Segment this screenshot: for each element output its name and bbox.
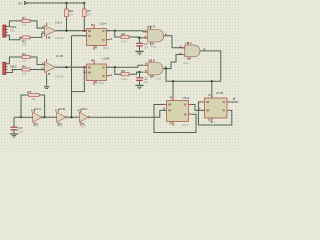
node osc input bbox=[20, 116, 22, 118]
wire R5 right loop bbox=[39, 95, 45, 117]
wire U4:B output staircase to U4:C input B bbox=[163, 55, 185, 69]
resistor R3 bbox=[22, 52, 30, 62]
node top rail / R7 bbox=[83, 2, 85, 4]
chip U2:A bbox=[83, 22, 112, 50]
wire R1 to U1:A plus input bbox=[30, 21, 45, 28]
wire inv3 to U3:A clock bbox=[90, 110, 167, 117]
resistor R8 bbox=[121, 32, 129, 44]
svg-text:U2:B: U2:B bbox=[103, 56, 110, 60]
svg-text:U4:A: U4:A bbox=[148, 24, 156, 28]
wire C3 top lead bbox=[13, 117, 15, 126]
svg-text:R4: R4 bbox=[22, 65, 26, 69]
op-amp U1:A bbox=[42, 21, 64, 40]
svg-text:10k: 10k bbox=[22, 22, 27, 26]
oscillator feedback resistor R5 bbox=[27, 90, 39, 101]
wire U1:A output to U2:A bbox=[56, 30, 87, 32]
svg-text:U5:C: U5:C bbox=[81, 107, 89, 111]
resistor R2 bbox=[22, 36, 30, 47]
wire C3 bottom lead bbox=[13, 130, 15, 133]
wire C1 bottom lead bbox=[139, 47, 141, 51]
wire J1 pin1 to R1 bbox=[7, 21, 22, 27]
wire R2 to U1:A minus input bbox=[30, 33, 45, 37]
connector J1 bbox=[3, 25, 17, 37]
ground U1:B bbox=[44, 86, 50, 89]
ground C2 bbox=[135, 85, 143, 89]
node net x71 join bbox=[70, 116, 72, 118]
resistor R1 bbox=[22, 16, 30, 26]
svg-text:R7: R7 bbox=[87, 9, 91, 13]
resistor R7 bbox=[83, 9, 92, 17]
node S-line U3:B bbox=[211, 80, 213, 82]
wire branch down to R8 bbox=[115, 31, 121, 37]
svg-text:LM339: LM339 bbox=[55, 36, 64, 40]
svg-text:4069: 4069 bbox=[79, 123, 85, 127]
node one-shot 2 branch bbox=[114, 66, 116, 68]
svg-text:10k: 10k bbox=[22, 59, 27, 63]
wire inv2 to inv3 bbox=[67, 116, 79, 118]
wire U2:B Q output bbox=[107, 65, 144, 67]
wire U3:A Q to U3:B clock bbox=[192, 105, 205, 111]
node C1 tap bbox=[138, 37, 140, 39]
wire osc input run bbox=[14, 116, 33, 118]
wire branch down to R9 bbox=[115, 67, 121, 74]
wire U4:C output bbox=[200, 51, 221, 81]
svg-text:U3:B: U3:B bbox=[216, 91, 223, 95]
svg-text:MIC: MIC bbox=[10, 28, 15, 32]
node osc inv1 out bbox=[44, 116, 46, 118]
wire net2 drop x84 bbox=[72, 67, 84, 91]
svg-text:4011: 4011 bbox=[151, 45, 157, 49]
svg-text:4013: 4013 bbox=[182, 123, 188, 127]
resistor R6 bbox=[65, 9, 74, 17]
wire U3:B feedback Qbar to D bbox=[198, 102, 231, 125]
capacitor C3 bbox=[11, 126, 24, 133]
svg-text:10k: 10k bbox=[22, 71, 27, 75]
wire branch down to S-line bbox=[166, 69, 221, 82]
svg-text:R1: R1 bbox=[22, 16, 26, 20]
ground C3 bbox=[10, 133, 18, 137]
svg-text:U4:C: U4:C bbox=[185, 41, 193, 45]
wire R5 left loop bbox=[21, 95, 29, 117]
svg-text:R5: R5 bbox=[27, 90, 31, 94]
svg-text:U1:A: U1:A bbox=[55, 21, 63, 25]
wire R9 to gate U4:B input B bbox=[129, 72, 144, 74]
svg-text:104: 104 bbox=[144, 80, 149, 84]
ground C1 bbox=[135, 51, 143, 55]
svg-text:R3: R3 bbox=[22, 52, 26, 56]
wire inv1 to inv2 bbox=[43, 116, 57, 118]
node S-line U3:A bbox=[172, 80, 174, 82]
wire U3:B set from S-line bbox=[211, 81, 213, 98]
svg-text:-: - bbox=[46, 32, 47, 36]
wire R8 to gate U4:A input B bbox=[129, 36, 148, 39]
inverter U5:C bbox=[78, 107, 90, 128]
background grid bbox=[0, 0, 240, 150]
wire U2:A Q output bbox=[107, 31, 148, 32]
svg-text:4011: 4011 bbox=[183, 61, 189, 65]
node output R6 bbox=[65, 30, 67, 32]
svg-text:U2:A: U2:A bbox=[100, 22, 108, 26]
wire U3:B Q output bbox=[231, 101, 239, 103]
node one-shot 1 branch bbox=[114, 30, 116, 32]
inverter U5:B bbox=[55, 107, 67, 128]
wire R7 bottom lead bbox=[83, 17, 85, 31]
power terminal +5V bbox=[19, 1, 28, 5]
chip U3:B bbox=[198, 91, 235, 124]
svg-text:104: 104 bbox=[144, 45, 149, 49]
chip U2:B bbox=[83, 56, 112, 85]
svg-text:R6: R6 bbox=[69, 9, 73, 13]
svg-text:R8: R8 bbox=[121, 32, 125, 36]
svg-text:-: - bbox=[46, 68, 47, 72]
wire J2 pin4 to R4 bbox=[7, 70, 22, 73]
wire R4 to U1:B minus input bbox=[30, 69, 45, 71]
chip U3:A bbox=[163, 96, 192, 127]
wire U4:A output to U4:C input A bbox=[164, 36, 185, 48]
svg-text:U4:B: U4:B bbox=[148, 59, 155, 63]
wire R7 top lead bbox=[83, 3, 85, 9]
gate U4:C bbox=[180, 41, 206, 65]
node net2 a bbox=[65, 66, 67, 68]
svg-text:10k: 10k bbox=[69, 12, 74, 16]
wire vertical net x71 bbox=[71, 36, 73, 118]
svg-text:U5:A: U5:A bbox=[34, 107, 42, 111]
svg-text:LM339: LM339 bbox=[55, 74, 64, 78]
svg-text:10k: 10k bbox=[87, 12, 92, 16]
inverter U5:A bbox=[31, 107, 43, 128]
wire C2 top lead bbox=[139, 72, 141, 77]
wire U1:B output to U2:B bbox=[56, 66, 87, 68]
op-amp U1:B bbox=[42, 54, 64, 78]
wire U1:B ground pin bbox=[46, 75, 48, 86]
svg-text:U5:B: U5:B bbox=[58, 107, 65, 111]
svg-text:4011: 4011 bbox=[155, 76, 161, 80]
node C2 tap bbox=[138, 71, 140, 73]
gate U4:A bbox=[144, 24, 167, 48]
svg-text:R9: R9 bbox=[121, 69, 125, 73]
svg-text:4013: 4013 bbox=[98, 81, 104, 85]
svg-text:100k: 100k bbox=[121, 40, 127, 44]
resistor R9 bbox=[121, 69, 129, 81]
svg-text:10k: 10k bbox=[22, 43, 27, 47]
wire J1 pin4 to R2 bbox=[7, 35, 22, 40]
svg-text:100k: 100k bbox=[121, 77, 127, 81]
wire R3 to U1:B plus input bbox=[30, 57, 45, 65]
wire R6 bottom lead bbox=[66, 17, 68, 31]
capacitor C2 bbox=[136, 77, 148, 84]
connector J2 bbox=[3, 62, 17, 74]
svg-text:4069: 4069 bbox=[33, 123, 39, 127]
wire C2 bottom lead bbox=[139, 81, 141, 85]
node net2 b bbox=[83, 66, 85, 68]
wire U3:A set from S-line bbox=[172, 81, 174, 100]
wire C1 top lead bbox=[139, 38, 141, 43]
wire J2 pin1 to R3 bbox=[7, 57, 22, 64]
svg-text:10u: 10u bbox=[18, 129, 23, 133]
capacitor C1 bbox=[136, 42, 148, 49]
wire U3:A feedback Qbar to D bbox=[154, 105, 196, 133]
gate U4:B bbox=[144, 59, 167, 81]
resistor R4 bbox=[22, 65, 30, 76]
wire R6 top lead bbox=[66, 3, 68, 9]
svg-text:U3:A: U3:A bbox=[183, 96, 191, 100]
svg-text:U1:B: U1:B bbox=[56, 54, 63, 58]
wire top rail bbox=[28, 2, 85, 4]
node output R7 bbox=[83, 30, 85, 32]
node top rail / R6 bbox=[65, 2, 67, 4]
svg-text:4069: 4069 bbox=[57, 123, 63, 127]
svg-text:4013: 4013 bbox=[103, 46, 109, 50]
wire U2:A clk input bbox=[72, 35, 87, 37]
node U4:B output branch bbox=[165, 68, 167, 70]
